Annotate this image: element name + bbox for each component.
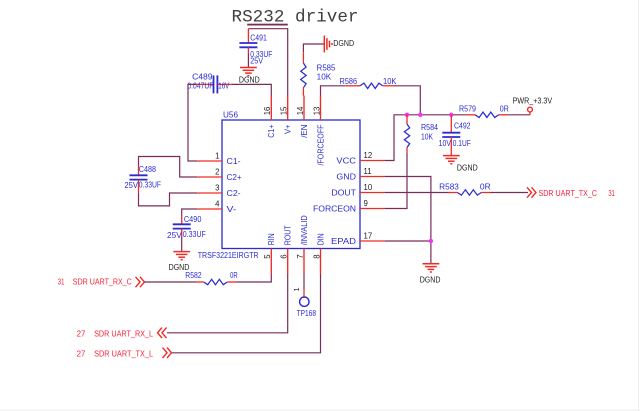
svg-text:DOUT: DOUT bbox=[331, 189, 356, 198]
svg-text:SDR UART_TX_L: SDR UART_TX_L bbox=[94, 350, 154, 359]
wire pin 4 to C490 bbox=[182, 209, 198, 216]
svg-text:1: 1 bbox=[292, 287, 301, 291]
svg-text:GND: GND bbox=[336, 173, 356, 182]
resistor R582 bbox=[185, 271, 238, 285]
svg-text:C2-: C2- bbox=[227, 189, 241, 198]
wire R583 to flag bbox=[490, 192, 528, 194]
svg-text:7: 7 bbox=[296, 254, 305, 258]
svg-text:V+: V+ bbox=[284, 124, 293, 134]
svg-text:C490: C490 bbox=[184, 215, 202, 224]
svg-text:9: 9 bbox=[364, 199, 368, 208]
node junction C492 top bbox=[449, 113, 453, 117]
op-amp U56 TRSF3221EIRGTR body bbox=[198, 110, 360, 260]
U56 pin 2 C2+ stub bbox=[197, 167, 242, 182]
svg-text:VCC: VCC bbox=[336, 157, 356, 166]
resistor R579 bbox=[459, 104, 509, 117]
U56 pin 10 DOUT stub bbox=[331, 183, 385, 198]
capacitor C488 bbox=[124, 165, 161, 193]
node junction R584 top bbox=[405, 113, 409, 117]
capacitor C492 bbox=[439, 115, 471, 156]
svg-text:0.1UF: 0.1UF bbox=[453, 139, 471, 148]
svg-text:EPAD: EPAD bbox=[331, 237, 356, 246]
svg-text:/EN: /EN bbox=[300, 124, 309, 137]
svg-text:13: 13 bbox=[312, 107, 321, 116]
net flag SDR UART_RX_C bbox=[58, 277, 145, 287]
resistor R584 bbox=[404, 115, 438, 153]
svg-text:0.047UF: 0.047UF bbox=[187, 82, 213, 91]
svg-text:25V: 25V bbox=[250, 56, 263, 65]
svg-text:SDR UART_RX_L: SDR UART_RX_L bbox=[94, 330, 154, 339]
svg-text:1: 1 bbox=[215, 151, 219, 160]
svg-text:ROUT: ROUT bbox=[284, 225, 293, 245]
svg-text:/FORCEOFF: /FORCEOFF bbox=[316, 125, 325, 166]
U56 pin 8 DIN stub bbox=[312, 233, 325, 274]
wire pin 13 to R586 bbox=[321, 86, 346, 96]
svg-text:DGND: DGND bbox=[457, 163, 478, 172]
wire pin 8 DIN to flag bbox=[172, 274, 321, 353]
capacitor C490 bbox=[167, 215, 206, 240]
svg-text:C1-: C1- bbox=[227, 157, 241, 166]
svg-text:PWR_+3.3V: PWR_+3.3V bbox=[513, 97, 553, 106]
svg-text:0R: 0R bbox=[500, 105, 509, 114]
svg-text:12: 12 bbox=[364, 151, 373, 160]
title RS232 driver bbox=[232, 8, 359, 28]
ground DGND below EPAD bbox=[420, 264, 441, 285]
svg-text:10K: 10K bbox=[317, 73, 332, 82]
svg-text:R582: R582 bbox=[185, 271, 201, 280]
svg-text:R579: R579 bbox=[459, 104, 476, 113]
net flag SDR UART_TX_C bbox=[527, 187, 615, 198]
svg-text:C488: C488 bbox=[139, 165, 156, 174]
capacitor C489 bbox=[187, 73, 232, 94]
svg-text:R586: R586 bbox=[340, 77, 358, 86]
wire C491 to pin 15 bbox=[248, 29, 287, 96]
wire pin 17 EPAD bbox=[385, 240, 431, 242]
svg-text:RIN: RIN bbox=[267, 233, 276, 245]
net flag SDR UART_TX_L bbox=[77, 348, 172, 359]
node junction R586 drop bbox=[418, 113, 422, 117]
U56 pin 3 C2- stub bbox=[197, 183, 241, 198]
wire R585 top to DGND bbox=[303, 44, 324, 52]
U56 pin 15 V+ stub bbox=[280, 96, 293, 135]
ground DGND below C490 bbox=[169, 252, 191, 273]
test point TP168 bbox=[292, 287, 316, 318]
svg-text:C1+: C1+ bbox=[267, 124, 276, 137]
svg-text:8: 8 bbox=[312, 254, 321, 258]
U56 pin 1 C1- stub bbox=[197, 151, 241, 166]
svg-text:R584: R584 bbox=[421, 123, 439, 132]
svg-text:11: 11 bbox=[364, 167, 372, 176]
ground DGND below C491 bbox=[239, 68, 260, 85]
svg-text:2: 2 bbox=[215, 167, 219, 176]
svg-text:C491: C491 bbox=[250, 33, 267, 42]
wire R579 to PWR_+3.3V bbox=[508, 114, 530, 116]
node junction EPAD-GND bbox=[429, 239, 433, 243]
wire R582 to pin 5 bbox=[237, 274, 272, 282]
U56 pin 16 C1+ stub bbox=[263, 96, 276, 138]
svg-text:25V: 25V bbox=[167, 231, 183, 240]
svg-text:10V: 10V bbox=[439, 139, 452, 148]
svg-text:FORCEON: FORCEON bbox=[313, 205, 356, 214]
resistor R585 bbox=[301, 52, 336, 95]
wire R586 to VCC rail bbox=[394, 86, 421, 115]
U56 pin 4 V- stub bbox=[197, 199, 236, 214]
svg-text:/INVALID: /INVALID bbox=[300, 215, 309, 245]
svg-text:U56: U56 bbox=[223, 110, 238, 119]
wire VCC rail pin 12 bbox=[385, 115, 466, 161]
U56 pin 9 FORCEON stub bbox=[313, 199, 385, 214]
U56 pin 13 /FORCEOFF stub bbox=[312, 96, 325, 166]
svg-text:25V: 25V bbox=[124, 181, 138, 190]
svg-text:10: 10 bbox=[364, 183, 373, 192]
svg-text:0R: 0R bbox=[230, 271, 238, 280]
svg-text:10K: 10K bbox=[421, 132, 434, 141]
U56 pin 12 VCC stub bbox=[336, 151, 385, 166]
wire C488 top to pin 2 bbox=[139, 157, 198, 178]
svg-text:3: 3 bbox=[215, 183, 219, 192]
svg-text:0.33UF: 0.33UF bbox=[183, 230, 206, 239]
U56 pin 14 /EN stub bbox=[296, 96, 309, 138]
resistor R586 bbox=[340, 77, 398, 89]
svg-text:TRSF3221EIRGTR: TRSF3221EIRGTR bbox=[198, 251, 259, 260]
U56 pin 11 GND stub bbox=[336, 167, 385, 182]
ground DGND below C492 bbox=[443, 156, 478, 173]
wire C489 right to pin 16 bbox=[232, 84, 271, 95]
svg-text:10K: 10K bbox=[383, 77, 397, 86]
wire pin 11 GND to ground bbox=[385, 177, 431, 264]
wire C489 left to pin 1 bbox=[188, 84, 197, 161]
U56 pin 7 /INVALID stub bbox=[296, 215, 309, 274]
svg-text:31: 31 bbox=[58, 277, 65, 286]
svg-text:16V: 16V bbox=[218, 82, 230, 91]
resistor R583 bbox=[439, 182, 491, 195]
U56 pin 5 RIN stub bbox=[263, 233, 276, 274]
svg-text:14: 14 bbox=[296, 106, 305, 115]
svg-text:DGND: DGND bbox=[420, 276, 441, 285]
U56 pin 17 EPAD stub bbox=[331, 231, 385, 246]
wire pin 7 to TP168 bbox=[303, 274, 305, 290]
wire flag to R582 bbox=[145, 281, 197, 283]
svg-text:27: 27 bbox=[77, 330, 86, 339]
svg-text:27: 27 bbox=[77, 350, 86, 359]
svg-text:DGND: DGND bbox=[239, 75, 260, 84]
svg-text:R583: R583 bbox=[439, 182, 459, 191]
svg-text:5: 5 bbox=[263, 254, 272, 259]
capacitor C491 bbox=[239, 29, 272, 68]
svg-text:DGND: DGND bbox=[333, 39, 354, 48]
U56 pin 6 ROUT stub bbox=[280, 225, 293, 274]
svg-text:4: 4 bbox=[215, 199, 220, 208]
svg-text:C489: C489 bbox=[192, 73, 212, 82]
wire R584 to pin 9 bbox=[385, 153, 407, 209]
svg-text:C2+: C2+ bbox=[227, 173, 242, 182]
svg-text:31: 31 bbox=[608, 189, 615, 198]
wire C490 to ground bbox=[181, 236, 183, 251]
svg-text:16: 16 bbox=[263, 107, 272, 116]
svg-text:C492: C492 bbox=[454, 122, 471, 131]
svg-text:V-: V- bbox=[227, 205, 237, 214]
svg-text:TP168: TP168 bbox=[297, 309, 316, 318]
svg-text:DIN: DIN bbox=[316, 233, 325, 245]
svg-text:15: 15 bbox=[280, 106, 289, 115]
wire pin 6 ROUT to flag bbox=[167, 274, 288, 333]
net flag SDR UART_RX_L bbox=[77, 328, 167, 339]
wire C488 bottom to pin 3 bbox=[139, 193, 198, 206]
power symbol PWR_+3.3V bbox=[513, 97, 553, 115]
svg-text:0.33UF: 0.33UF bbox=[139, 180, 161, 189]
svg-text:17: 17 bbox=[364, 231, 373, 240]
svg-text:R585: R585 bbox=[317, 63, 336, 72]
ground DGND sideways top bbox=[324, 36, 354, 53]
wire pin 10 DOUT to R583 bbox=[385, 192, 449, 194]
svg-text:6: 6 bbox=[280, 254, 289, 258]
svg-text:0R: 0R bbox=[480, 182, 491, 191]
svg-text:SDR UART_RX_C: SDR UART_RX_C bbox=[73, 277, 132, 286]
svg-text:SDR UART_TX_C: SDR UART_TX_C bbox=[539, 189, 598, 198]
